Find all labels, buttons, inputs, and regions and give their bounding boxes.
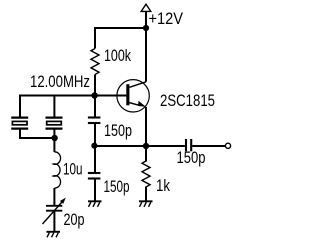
svg-text:150p: 150p [177, 148, 206, 167]
svg-text:+12V: +12V [149, 9, 184, 28]
svg-text:150p: 150p [104, 121, 132, 140]
svg-text:20p: 20p [64, 210, 85, 229]
svg-text:150p: 150p [104, 177, 130, 196]
svg-text:12.00MHz: 12.00MHz [30, 72, 90, 91]
svg-text:100k: 100k [104, 46, 131, 65]
svg-text:10u: 10u [63, 160, 83, 179]
svg-text:2SC1815: 2SC1815 [160, 91, 215, 110]
svg-text:1k: 1k [156, 176, 170, 195]
